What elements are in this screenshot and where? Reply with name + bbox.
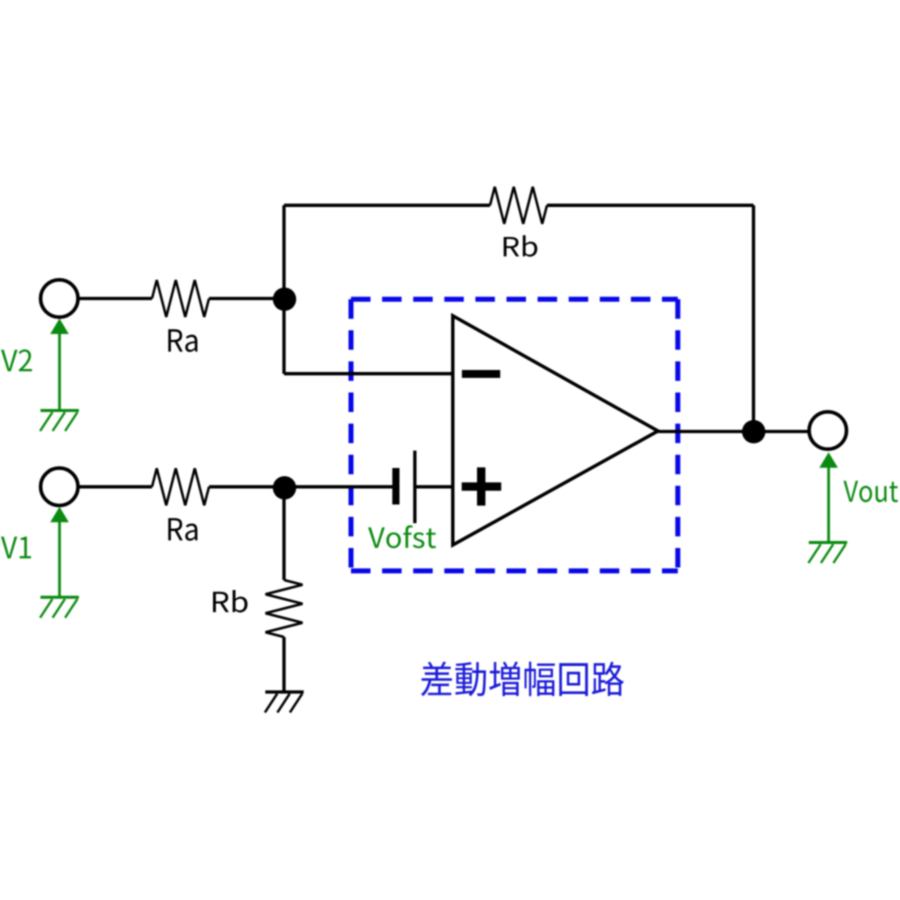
output node junction dot — [742, 420, 765, 443]
blue dashed enclosure box (bottom edge) — [351, 568, 678, 573]
op-amp non-inverting input plus sign — [462, 467, 502, 505]
terminal V1 (input port circle) — [41, 468, 78, 505]
label Ra (top) — [168, 329, 197, 352]
op-amp U1 triangle — [453, 316, 658, 545]
terminal V2 (input port circle) — [41, 280, 78, 317]
wire node A up to feedback rail — [282, 205, 285, 298]
V2 source arrow — [58, 332, 61, 411]
label V2 — [1, 349, 32, 371]
resistor Ra (top, V2 input) — [152, 280, 209, 317]
label Rb (feedback) — [504, 235, 538, 256]
wire Ra to node A — [209, 297, 284, 300]
blue dashed enclosure box (top edge) — [351, 297, 678, 302]
resistor Rb (to ground, vertical) — [266, 580, 303, 637]
wire V2 terminal to Ra — [79, 297, 152, 300]
op-amp inverting input minus sign — [462, 370, 500, 378]
blue dashed enclosure box (left edge) — [349, 299, 354, 571]
ground (black, below Rb) — [265, 690, 303, 693]
label Ra (bottom) — [168, 518, 197, 541]
ground (green, V1) — [41, 596, 79, 599]
resistor Ra (bottom, V1 input) — [152, 468, 209, 505]
label V1 — [1, 537, 31, 559]
ground (green, Vout) — [809, 541, 847, 544]
wire op-amp output — [658, 430, 808, 433]
wire feedback rail left segment — [284, 204, 490, 207]
wire node A down to inverting input — [282, 299, 285, 374]
battery Vofst positive plate (long thin) — [413, 451, 416, 524]
wire feedback rail right segment — [547, 204, 754, 207]
wire right vertical down to output node — [752, 205, 755, 431]
battery Vofst negative plate (short thick) — [392, 468, 399, 505]
wire Rb to ground — [282, 637, 285, 692]
wire inverting input — [284, 372, 453, 375]
wire V1 terminal to Ra — [79, 485, 152, 488]
resistor Rb (feedback) — [490, 187, 547, 224]
terminal Vout (output port circle) — [809, 412, 846, 449]
Vout arrow — [827, 466, 830, 542]
node A junction dot — [273, 288, 296, 311]
label Vout — [843, 481, 898, 503]
label Rb (grounding resistor) — [213, 590, 247, 612]
caption 差動増幅回路 (differential amplifier circuit) — [421, 662, 624, 697]
label Vofst — [368, 525, 436, 548]
blue dashed enclosure box (right edge) — [675, 299, 680, 571]
wire node B down to Rb — [282, 488, 285, 580]
wire Ra to node B and battery — [209, 485, 393, 488]
node B junction dot — [273, 476, 296, 499]
wire battery to non-inverting input — [417, 485, 453, 488]
V1 source arrow — [58, 520, 61, 597]
ground (green, V2) — [41, 409, 79, 412]
